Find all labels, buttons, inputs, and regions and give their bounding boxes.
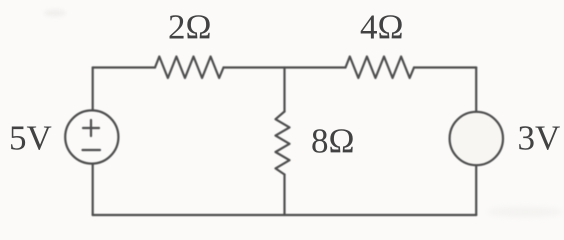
svg-text:2Ω: 2Ω bbox=[168, 8, 212, 47]
voltage source V2 circle bbox=[450, 112, 503, 165]
V1 plus sign bbox=[83, 120, 99, 136]
wire: top-left vertical from V1 top to top-left corner bbox=[92, 68, 94, 111]
wire: bottom rail bbox=[93, 214, 477, 216]
wire: middle branch upper (node A to R3) bbox=[283, 68, 285, 112]
svg-text:3V: 3V bbox=[518, 119, 561, 158]
wire: middle branch lower (R3 to bottom rail) bbox=[283, 175, 285, 216]
svg-text:8Ω: 8Ω bbox=[311, 122, 355, 161]
svg-text:4Ω: 4Ω bbox=[360, 8, 404, 47]
wire: top rail right segment (R2 to top-right corner) bbox=[414, 66, 476, 68]
resistor R2 4-ohm zigzag bbox=[346, 57, 415, 79]
wire: top rail left segment (corner to R1) bbox=[93, 66, 155, 68]
scan smudge artifact top-left bbox=[44, 10, 66, 17]
V1 minus sign bbox=[83, 149, 101, 151]
resistor R1 2-ohm zigzag bbox=[155, 57, 224, 79]
wire: left vertical from V1 bottom to bottom-left corner bbox=[92, 164, 94, 216]
voltage source V1 circle bbox=[65, 110, 118, 163]
svg-text:5V: 5V bbox=[9, 119, 52, 158]
scan streak artifact bottom-right bbox=[487, 207, 563, 217]
wire: right vertical from V2 bottom to bottom-right corner bbox=[475, 165, 477, 215]
wire: right vertical from corner to source V2 top bbox=[475, 68, 477, 113]
wire: top rail middle segment (R1 to R2) through node A bbox=[224, 66, 346, 68]
resistor R3 8-ohm vertical zigzag bbox=[276, 112, 290, 175]
